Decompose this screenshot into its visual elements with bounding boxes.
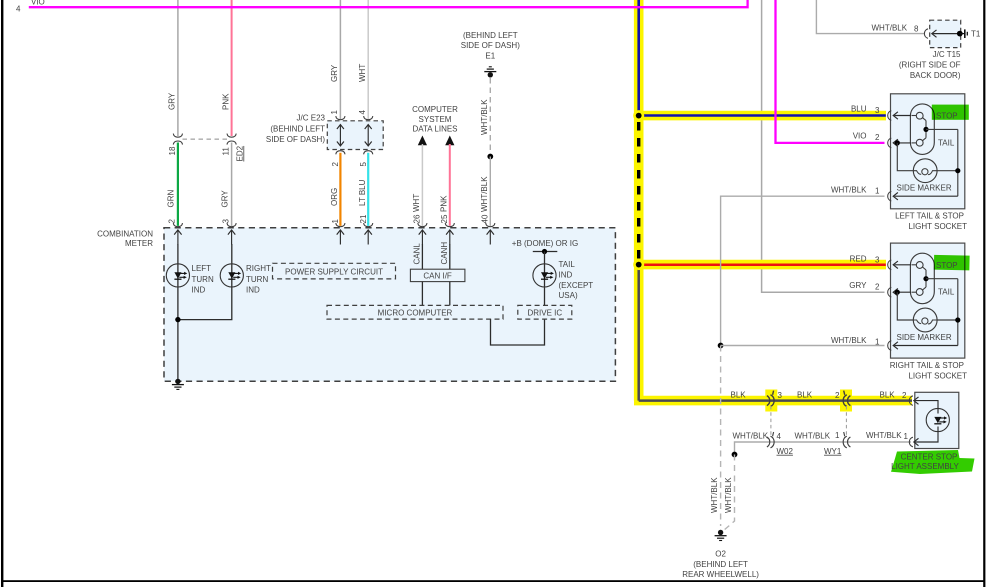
svg-text:BLK: BLK — [797, 390, 813, 399]
svg-text:GRY: GRY — [330, 64, 339, 82]
svg-text:GRY: GRY — [220, 190, 229, 208]
green highlight STOP left — [932, 105, 969, 120]
svg-text:2: 2 — [168, 219, 177, 224]
micro computer box — [327, 305, 503, 319]
svg-text:T1: T1 — [971, 30, 981, 39]
svg-text:REAR WHEELWELL): REAR WHEELWELL) — [682, 570, 759, 579]
svg-text:WHT: WHT — [358, 64, 367, 82]
svg-text:WHT/BLK: WHT/BLK — [872, 23, 908, 32]
svg-text:COMBINATION: COMBINATION — [97, 230, 153, 239]
yellow band: BLK horizontal to center stop light — [634, 396, 912, 406]
junction node turn inds — [175, 317, 180, 322]
connector pair on second wire (ED2) — [227, 134, 236, 138]
yellow band: BLK vertical down — [634, 265, 644, 401]
svg-text:WHT/BLK: WHT/BLK — [795, 432, 831, 441]
svg-text:RIGHT: RIGHT — [246, 264, 271, 273]
dashed connector link lines — [770, 406, 772, 435]
LED U1 left turn ind — [166, 264, 189, 287]
svg-text:DRIVE IC: DRIVE IC — [527, 309, 562, 318]
svg-text:TURN: TURN — [246, 275, 268, 284]
svg-text:5: 5 — [359, 162, 368, 167]
wire PNK (CANH) with up arrow — [445, 136, 454, 146]
wire LT BLU from J/C E23 pin 5 to meter pin 21 — [367, 153, 369, 226]
svg-text:1: 1 — [875, 187, 880, 196]
yellow band: BLU vertical from top — [634, 0, 644, 116]
dashed link between ED2 connector halves — [183, 138, 228, 140]
svg-text:METER: METER — [125, 239, 153, 248]
svg-text:2: 2 — [331, 162, 340, 167]
svg-text:E1: E1 — [485, 52, 495, 61]
svg-text:2: 2 — [835, 391, 840, 400]
svg-text:WHT/BLK: WHT/BLK — [831, 185, 867, 194]
wire micro computer to drive ic — [491, 319, 545, 345]
wire GRY vertical from top to right socket pin 2 — [762, 0, 885, 292]
svg-text:11: 11 — [222, 147, 231, 156]
svg-text:LIGHT ASSEMBLY: LIGHT ASSEMBLY — [891, 462, 959, 471]
junction node: BLU tee — [633, 110, 644, 121]
terminal T1 — [957, 31, 963, 37]
svg-text:1: 1 — [835, 431, 840, 440]
svg-text:VIO: VIO — [853, 131, 867, 140]
svg-text:WHT/BLK: WHT/BLK — [831, 336, 867, 345]
svg-text:GRN: GRN — [167, 190, 176, 208]
wire RED horizontal — [639, 263, 886, 266]
svg-text:J/C T15: J/C T15 — [933, 50, 961, 59]
LED center stop — [926, 408, 949, 431]
svg-text:1: 1 — [330, 110, 339, 115]
svg-text:40: 40 — [480, 214, 489, 223]
svg-text:CENTER STOP: CENTER STOP — [901, 453, 958, 462]
svg-text:BLK: BLK — [880, 390, 896, 399]
svg-text:CANH: CANH — [440, 242, 449, 265]
wire WHT (CANL) with up arrow — [418, 136, 427, 146]
svg-text:USA): USA) — [559, 291, 578, 300]
LED tail ind — [533, 264, 556, 287]
junction connector J/C E23 — [327, 121, 383, 150]
wire WHT/BLK left socket pin 1 — [721, 196, 885, 345]
wire BLU horizontal — [639, 114, 886, 117]
LED right turn indicator wire — [178, 244, 232, 320]
svg-text:2: 2 — [875, 283, 880, 292]
svg-text:GRY: GRY — [849, 281, 867, 290]
svg-text:4: 4 — [358, 110, 367, 115]
wire BLK horizontal — [639, 399, 912, 402]
svg-text:IND: IND — [559, 270, 573, 279]
svg-text:O2: O2 — [715, 549, 726, 558]
svg-text:LIGHT SOCKET: LIGHT SOCKET — [908, 372, 967, 381]
svg-text:BLU: BLU — [851, 105, 867, 114]
svg-text:3: 3 — [221, 219, 230, 224]
svg-text:TAIL: TAIL — [559, 260, 576, 269]
svg-text:STOP: STOP — [936, 112, 958, 121]
page border right — [983, 0, 985, 587]
svg-text:1: 1 — [331, 219, 340, 224]
svg-text:SYSTEM: SYSTEM — [419, 115, 452, 124]
svg-text:LEFT: LEFT — [192, 264, 212, 273]
svg-text:1: 1 — [875, 338, 880, 347]
svg-text:W02: W02 — [777, 447, 794, 456]
yellow band: dashed segment junction1 to junction2 — [634, 116, 644, 265]
wire WHT/BLK from splice to center stop pin 1 — [735, 442, 912, 455]
svg-text:WHT/BLK: WHT/BLK — [480, 176, 489, 212]
svg-text:WHT/BLK: WHT/BLK — [710, 477, 719, 513]
wire GRY vertical (turn signal left) — [177, 0, 179, 136]
svg-text:WHT/BLK: WHT/BLK — [733, 432, 769, 441]
svg-text:RED: RED — [850, 254, 867, 263]
green highlight STOP right — [934, 255, 970, 271]
wires CAN I/F to micro computer — [421, 282, 423, 306]
svg-text:TURN: TURN — [192, 275, 214, 284]
svg-text:POWER SUPPLY CIRCUIT: POWER SUPPLY CIRCUIT — [285, 267, 383, 276]
pin 1 entry — [909, 437, 913, 447]
yellow band: BLU horizontal to left tail socket — [634, 111, 886, 121]
CAN I/F box — [410, 269, 465, 281]
svg-text:SIDE OF DASH): SIDE OF DASH) — [461, 41, 520, 50]
yellow band: RED horizontal to right tail socket — [634, 260, 886, 270]
wire WHT into J/C E23 pin 4 — [367, 0, 369, 119]
svg-text:BLK: BLK — [731, 390, 747, 399]
svg-text:J/C E23: J/C E23 — [297, 114, 326, 123]
svg-text:(BEHIND LEFT: (BEHIND LEFT — [463, 31, 518, 40]
junction node WHT/BLK — [718, 343, 724, 349]
svg-text:VIO: VIO — [31, 0, 45, 7]
svg-text:3: 3 — [778, 391, 783, 400]
wire PNK vertical — [231, 0, 233, 136]
svg-text:+B (DOME) OR IG: +B (DOME) OR IG — [512, 239, 578, 248]
wire VIO from top to left socket pin 2 — [776, 0, 885, 143]
svg-text:PNK: PNK — [440, 195, 449, 212]
svg-text:BACK DOOR): BACK DOOR) — [910, 71, 961, 80]
svg-text:8: 8 — [914, 25, 919, 34]
svg-text:ED2: ED2 — [235, 145, 244, 161]
LED U2 right turn ind — [220, 264, 243, 287]
wire BLK vertical — [637, 265, 640, 401]
svg-text:26: 26 — [412, 214, 421, 223]
right tail and stop light socket — [888, 243, 965, 358]
svg-text:COMPUTER: COMPUTER — [412, 105, 458, 114]
wire GRY into J/C E23 pin 1 — [339, 0, 341, 119]
LED left turn indicator wire — [177, 244, 179, 382]
CANL wire into CAN I/F — [421, 244, 423, 269]
svg-text:IND: IND — [192, 286, 206, 295]
svg-text:WHT: WHT — [412, 194, 421, 212]
left tail and stop light socket — [888, 94, 965, 209]
junction node: RED tee — [633, 259, 644, 270]
CANH wire into CAN I/F — [449, 244, 451, 269]
dashed WHT/BLK wire from E1 — [489, 78, 491, 153]
pin 2 entry — [909, 396, 913, 406]
svg-text:3: 3 — [875, 256, 880, 265]
svg-text:STOP: STOP — [936, 261, 958, 270]
svg-text:ORG: ORG — [330, 188, 339, 206]
svg-text:GRY: GRY — [168, 92, 177, 110]
yellow blobs at BLK inline connectors — [765, 390, 777, 412]
svg-text:LEFT TAIL & STOP: LEFT TAIL & STOP — [895, 211, 964, 220]
svg-text:PNK: PNK — [221, 93, 230, 110]
svg-text:1: 1 — [904, 432, 909, 441]
svg-text:(BEHIND LEFT: (BEHIND LEFT — [270, 124, 325, 133]
svg-text:18: 18 — [168, 146, 177, 155]
drive ic box — [518, 305, 572, 319]
svg-text:2: 2 — [902, 391, 907, 400]
meter internal ground — [172, 379, 184, 390]
svg-text:CAN I/F: CAN I/F — [423, 272, 452, 281]
wire WHT/BLK right socket pin 1 — [721, 345, 885, 347]
meter pin cups — [173, 223, 182, 227]
page border left — [1, 0, 3, 587]
svg-text:(BEHIND LEFT: (BEHIND LEFT — [693, 560, 748, 569]
svg-text:25: 25 — [440, 214, 449, 223]
svg-text:2: 2 — [875, 133, 880, 142]
svg-text:LIGHT SOCKET: LIGHT SOCKET — [908, 222, 967, 231]
svg-text:LT BLU: LT BLU — [358, 179, 367, 206]
green marker highlight — [891, 450, 975, 474]
wire VIO horizontal at top — [29, 0, 748, 7]
meter pin arrows — [174, 230, 181, 245]
wire GRN to meter pin 2 — [177, 143, 179, 226]
svg-text:4: 4 — [16, 5, 21, 14]
svg-text:WHT/BLK: WHT/BLK — [866, 431, 902, 440]
splice node — [487, 154, 493, 160]
svg-text:21: 21 — [359, 214, 368, 223]
svg-text:IND: IND — [246, 286, 260, 295]
svg-text:3: 3 — [875, 106, 880, 115]
svg-text:(EXCEPT: (EXCEPT — [559, 281, 594, 290]
wire BLU vertical — [637, 0, 640, 116]
svg-text:RIGHT TAIL & STOP: RIGHT TAIL & STOP — [890, 361, 964, 370]
wire ORG from J/C E23 pin 2 to meter pin 1 — [339, 153, 341, 226]
ground E1 (inverted) — [484, 67, 496, 78]
dashed WHT/BLK down to O2 — [720, 346, 722, 527]
wire WHT/BLK from top to J/C T15 — [816, 0, 925, 34]
wire +B to drive ic through tail ind — [544, 252, 546, 306]
power supply circuit box — [273, 263, 396, 279]
black dashed highlight core (junction1-junction2) — [637, 122, 640, 259]
svg-text:(RIGHT SIDE OF: (RIGHT SIDE OF — [899, 60, 961, 69]
dashed WHT/BLK down to O2 from splice — [723, 455, 735, 532]
svg-text:WHT/BLK: WHT/BLK — [480, 99, 489, 135]
svg-text:WHT/BLK: WHT/BLK — [724, 477, 733, 513]
svg-text:WY1: WY1 — [824, 447, 842, 456]
svg-text:4: 4 — [777, 432, 782, 441]
combination meter box — [164, 228, 615, 382]
wire GRY to meter pin 3 — [231, 143, 233, 226]
svg-text:MICRO COMPUTER: MICRO COMPUTER — [378, 309, 453, 318]
page border bottom — [1, 580, 985, 582]
svg-text:SIDE OF DASH): SIDE OF DASH) — [266, 135, 325, 144]
wire WHT/BLK to meter pin 40 — [489, 157, 491, 226]
ground O2 — [715, 530, 727, 541]
svg-text:DATA LINES: DATA LINES — [412, 125, 457, 134]
connector pair on left wire (ED2) — [173, 134, 182, 138]
svg-text:CANL: CANL — [412, 243, 421, 265]
